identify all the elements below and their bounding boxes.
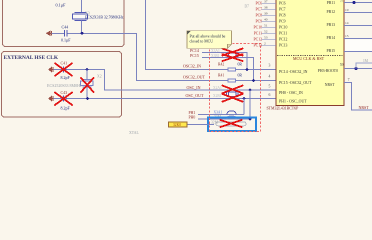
capacitor C41 xyxy=(64,67,67,73)
svg-text:PC10: PC10 xyxy=(254,26,263,30)
svg-text:0.1µF: 0.1µF xyxy=(56,3,67,8)
svg-text:1M: 1M xyxy=(363,59,369,63)
svg-text:STM32L431RCT6P: STM32L431RCT6P xyxy=(267,107,300,111)
wire C43 row (OSC_OUT net) xyxy=(54,98,277,100)
faint white patch right of IC xyxy=(345,39,372,51)
wire from top cap down to crystal X3 xyxy=(81,0,83,13)
section divider xyxy=(277,54,343,56)
X over C43 xyxy=(55,93,72,105)
svg-text:XTAL: XTAL xyxy=(129,131,139,135)
svg-text:5: 5 xyxy=(269,85,271,89)
svg-text:6: 6 xyxy=(269,93,271,97)
svg-text:10: 10 xyxy=(345,8,349,12)
wire PH0 row xyxy=(198,118,250,120)
X over crystal row OSC_IN xyxy=(223,86,243,94)
svg-text:PC12: PC12 xyxy=(254,38,263,42)
svg-text:PC9: PC9 xyxy=(255,20,262,24)
svg-text:PC14 -OSC32_IN: PC14 -OSC32_IN xyxy=(279,70,308,74)
vertical OSC_IN to bottom row xyxy=(249,90,251,119)
svg-text:PC7: PC7 xyxy=(255,8,262,12)
svg-text:R41: R41 xyxy=(218,73,224,77)
svg-text:PB15: PB15 xyxy=(327,49,336,53)
svg-text:PC10: PC10 xyxy=(279,26,288,30)
left pins PC6..PC13 xyxy=(254,0,288,48)
svg-text:X2B1: X2B1 xyxy=(213,94,222,98)
crossed-out crystal in blue box xyxy=(216,122,246,126)
ground port (C44 left) xyxy=(47,31,52,36)
wire C41 row xyxy=(54,70,277,91)
right pins PB11..PB15 xyxy=(327,1,349,53)
IC left pin names (clk section) xyxy=(279,70,312,104)
dome crystal 1 xyxy=(227,111,236,115)
IC body U1 xyxy=(276,0,344,105)
svg-text:PB13: PB13 xyxy=(327,23,336,27)
svg-text:15: 15 xyxy=(345,34,349,38)
svg-text:PB14: PB14 xyxy=(327,36,336,40)
svg-text:PC11: PC11 xyxy=(254,32,262,36)
svg-text:21: 21 xyxy=(340,0,344,3)
svg-text:PH0: PH0 xyxy=(189,116,196,120)
junction C44 row xyxy=(81,32,84,35)
svg-text:0.1µF: 0.1µF xyxy=(61,38,71,43)
svg-text:X3A1: X3A1 xyxy=(211,49,220,53)
svg-text:PH1 - OSC_OUT: PH1 - OSC_OUT xyxy=(279,99,307,103)
X over C41 xyxy=(55,63,72,75)
svg-text:PC8: PC8 xyxy=(279,14,286,18)
svg-text:32K0: 32K0 xyxy=(173,123,181,127)
svg-text:OSC_OUT: OSC_OUT xyxy=(186,93,205,98)
X over crystal row PC14 xyxy=(223,49,243,56)
junction OSC_OUT row xyxy=(243,97,246,100)
lower section box EXTERNAL HSE CLK xyxy=(2,52,122,118)
upper section box (LSE osc) xyxy=(3,0,125,47)
crystal (HSE smd) between OSC_IN/OSC_OUT rows xyxy=(227,92,239,97)
junction C43 row xyxy=(86,97,89,100)
svg-text:PC8: PC8 xyxy=(255,14,262,18)
svg-text:X3A1: X3A1 xyxy=(214,110,223,114)
wire PC14 row xyxy=(202,52,247,69)
svg-text:PH0 - OSC_IN: PH0 - OSC_IN xyxy=(279,91,303,95)
svg-text:7: 7 xyxy=(348,78,350,82)
svg-text:closed to MCU: closed to MCU xyxy=(190,40,214,44)
svg-text:0R: 0R xyxy=(238,62,243,66)
svg-text:C44: C44 xyxy=(62,25,69,30)
svg-text:PC13: PC13 xyxy=(254,44,263,48)
svg-text:EXTERNAL HSE CLK: EXTERNAL HSE CLK xyxy=(4,55,59,61)
svg-text:OSC32_IN: OSC32_IN xyxy=(183,64,201,69)
svg-text:PC15: PC15 xyxy=(190,53,199,58)
svg-text:X2A1: X2A1 xyxy=(213,86,222,90)
yellow net box xyxy=(169,122,188,127)
capacitor C44 xyxy=(65,30,68,37)
svg-text:PC12: PC12 xyxy=(279,38,288,42)
svg-text:OSC32_OUT: OSC32_OUT xyxy=(183,75,206,80)
left pin wires PC6..PC13 xyxy=(262,3,277,45)
dome crystal 2 xyxy=(227,116,236,119)
long vertical wire to OSC32_IN row xyxy=(146,0,277,70)
svg-text:X2: X2 xyxy=(97,75,102,79)
wire NRST xyxy=(344,83,372,110)
svg-text:8.2pF: 8.2pF xyxy=(61,106,71,111)
junction PB11 xyxy=(353,1,356,4)
junction C41 row xyxy=(86,68,89,71)
ground port (C43 left) xyxy=(49,96,54,101)
svg-text:Put all above should be: Put all above should be xyxy=(190,35,226,39)
svg-text:PC15 -OSC32_OUT: PC15 -OSC32_OUT xyxy=(279,81,312,85)
svg-text:D7: D7 xyxy=(245,4,250,8)
junction OSC_IN row xyxy=(249,89,252,92)
wire BOOT0 xyxy=(344,68,372,70)
svg-text:59: 59 xyxy=(340,63,344,67)
svg-text:PC7: PC7 xyxy=(279,8,286,12)
svg-text:PH1: PH1 xyxy=(189,111,196,115)
svg-text:MCU CLK & RST: MCU CLK & RST xyxy=(293,56,325,61)
svg-text:0R: 0R xyxy=(238,73,243,77)
junction OSC32_OUT/PC15 xyxy=(252,79,255,82)
svg-text:32M: 32M xyxy=(211,121,219,125)
svg-text:8.2pF: 8.2pF xyxy=(61,75,71,80)
wire from yellow box xyxy=(188,124,215,126)
svg-text:OSC_IN: OSC_IN xyxy=(187,85,201,90)
svg-text:PB11: PB11 xyxy=(327,1,335,5)
svg-text:4: 4 xyxy=(269,74,271,78)
junction BOOT0 xyxy=(354,67,357,70)
svg-text:3: 3 xyxy=(269,63,271,67)
svg-text:PC13: PC13 xyxy=(279,44,288,48)
crystal (LSE alt) between PC14/PC15 rows xyxy=(227,53,239,57)
wire crystal to C44 row xyxy=(81,20,83,33)
svg-text:R42: R42 xyxy=(218,62,224,66)
right pin wires xyxy=(344,3,372,52)
yellow note xyxy=(187,31,232,48)
svg-text:PB12: PB12 xyxy=(327,10,336,14)
capacitor C43 xyxy=(64,96,67,102)
wire C44 row xyxy=(52,33,277,80)
crystal X3 (32.768k) xyxy=(73,13,88,21)
svg-text:X3B1: X3B1 xyxy=(211,54,220,58)
svg-text:ECS2520S33 8M0Hz: ECS2520S33 8M0Hz xyxy=(47,83,82,88)
svg-text:PC11: PC11 xyxy=(279,32,287,36)
vertical OSC_OUT to bottom row xyxy=(243,99,245,115)
blue highlight box xyxy=(208,118,256,132)
wire PC15 row xyxy=(202,57,254,80)
svg-text:PC9: PC9 xyxy=(279,20,286,24)
svg-text:NRST: NRST xyxy=(325,83,335,87)
X over boxed crystal xyxy=(221,120,242,127)
wire PH1 row xyxy=(198,113,244,115)
svg-text:PH3-BOOT0: PH3-BOOT0 xyxy=(318,69,338,73)
svg-text:C43: C43 xyxy=(61,90,68,95)
X over crystal row PC15 xyxy=(223,54,243,61)
svg-text:PC6: PC6 xyxy=(255,2,262,6)
svg-text:14: 14 xyxy=(345,21,349,25)
junction bottom right xyxy=(249,118,252,121)
svg-text:PC6: PC6 xyxy=(279,2,286,6)
junction OSC32_IN/PC14 xyxy=(246,68,249,71)
X over X2 xyxy=(81,78,94,92)
sheet background xyxy=(0,0,372,136)
stub up right xyxy=(356,63,372,69)
X over crystal row OSC_OUT xyxy=(223,94,243,102)
svg-text:C41: C41 xyxy=(61,60,68,65)
crystal X2 vertical between rows xyxy=(81,70,94,99)
svg-text:ECS2X31B 32.7680KHz: ECS2X31B 32.7680KHz xyxy=(85,15,124,19)
svg-text:NRST: NRST xyxy=(359,105,370,110)
red dashed DNP box xyxy=(210,44,261,132)
ground port (C41 left) xyxy=(49,67,54,72)
